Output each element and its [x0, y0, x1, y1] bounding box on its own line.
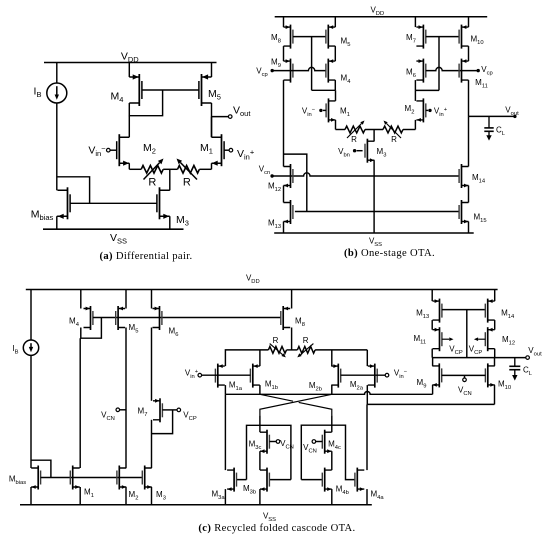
current source IB [47, 83, 67, 103]
wire VDD to M4 source [128, 63, 130, 78]
wire M4c source to M4b drain [331, 451, 333, 470]
svg-text:R: R [391, 135, 397, 144]
wire M4 drain down (fig b) [334, 80, 336, 90]
wire M4b source to VSS [331, 489, 333, 505]
wire M4c gate stub [316, 441, 322, 443]
capacitor CL (fig b) [484, 116, 493, 140]
arrow of variable resistor R right (fig c) [301, 344, 314, 355]
wire VDD rail (fig b) [275, 16, 488, 18]
wire M3c source to M3b drain [259, 451, 261, 470]
wire VCN stub down [464, 375, 466, 377]
svg-text:(a) Differential pair.: (a) Differential pair. [99, 251, 192, 262]
resistor R (left, fig a) [141, 166, 163, 174]
wire gate rail top PMOS row (fig c) [93, 317, 281, 319]
wire resistor tap to M3 drain [169, 169, 171, 190]
transistor M3 (fig c) [142, 466, 151, 490]
wire M2b source up [331, 350, 333, 366]
wire VSS rail (fig a) [43, 228, 184, 230]
wire M4a drain to node B [366, 404, 368, 470]
svg-text:(b) One-stage OTA.: (b) One-stage OTA. [344, 248, 435, 259]
wire M2 drain up (fig b) [414, 90, 416, 101]
transistor M4b [322, 468, 331, 492]
node Vout terminal (fig b) [513, 115, 516, 118]
wire M7 drain to M3 drain column [151, 420, 153, 468]
wire M3a source to VSS [224, 489, 226, 505]
node Vcn terminal (fig b) [270, 174, 273, 177]
wire gate line down to cascode junction (left) [311, 37, 313, 91]
node Vbn terminal [353, 149, 356, 152]
wire M4a source to VSS [366, 489, 368, 505]
arrow VCP bias marker (M12) [478, 338, 485, 340]
svg-text:R: R [351, 135, 357, 144]
arrow of variable resistor R left (fig c) [270, 344, 283, 355]
wire M13 drain to M11 source [431, 320, 433, 330]
wire M5 drain to M1 drain [211, 103, 213, 137]
wire M15 source to VSS [468, 222, 470, 234]
transistor M11 [459, 59, 468, 83]
wire M6 drain down [414, 80, 416, 90]
wire M11 drain to output [468, 80, 470, 116]
wire M2 source down (fig b) [414, 120, 416, 130]
wire Mbias diode connection [57, 177, 90, 204]
wire M9 source down to node A rail [432, 385, 434, 394]
transistor M3 (fig b) [365, 139, 374, 163]
wire X corner down to M4c drain [331, 415, 333, 432]
capacitor CL (fig c) [509, 358, 520, 381]
transistor M5 [199, 74, 212, 106]
wire IB to Mbias drain [56, 103, 58, 190]
wire M2 source down [128, 163, 130, 169]
wire VDD to M5 source (fig b) [334, 17, 336, 27]
transistor M1b [250, 364, 259, 388]
wire M4 gate to M5 gate [142, 89, 199, 91]
wire M1 drain up (fig b) [335, 90, 337, 101]
wire M1 source down (fig b) [335, 120, 337, 130]
wire M1b source up [259, 350, 261, 366]
wire M2a drain down to node B [366, 385, 368, 404]
wire output line (fig c) [432, 357, 525, 359]
wire R1 to R2 (fig b) [365, 129, 383, 131]
wire Mbias source to VSS (fig c) [30, 487, 32, 505]
wire VDD to M13 source [431, 290, 433, 302]
wire M2 source to R1 [129, 168, 141, 170]
resistor R (left, fig c) [268, 347, 286, 354]
wire Vbn to M3 gate [357, 150, 363, 152]
wire VDD to current source IB [56, 63, 58, 84]
wire M1 source to VSS (fig c) [79, 487, 81, 505]
node VCN terminal (left, fig c) [116, 408, 120, 412]
wire Vcp bias rail (left) with hop [272, 67, 326, 70]
wire X corner down to M3c drain [259, 415, 261, 432]
svg-text:R: R [148, 177, 156, 189]
svg-text:R: R [273, 336, 279, 345]
wire M2b drain down [331, 385, 333, 394]
transistor M3c [260, 430, 269, 454]
wire VDD to M10 source [468, 17, 470, 27]
transistor M9 [284, 59, 293, 83]
resistor R (right, fig b) [383, 126, 403, 133]
arrow VCP bias marker (M11) [442, 338, 449, 340]
wire M3 source to VSS (fig b) [373, 160, 375, 233]
wire VCN gate wire M9-M10 [442, 374, 486, 376]
wire node B rail to M10 source [367, 403, 494, 405]
wire M14 source to M15 drain [468, 186, 470, 203]
transistor M10 [459, 25, 468, 49]
node VCN terminal (M4c) [312, 440, 316, 444]
transistor M1 [212, 134, 225, 166]
arrow of variable resistor R left (fig a) [144, 163, 160, 180]
transistor M8 (fig c) [281, 306, 290, 330]
wire mirror gate tap down to output line [466, 310, 468, 358]
node Vout terminal (fig a) [228, 115, 232, 119]
wire M2 drain up to M4 drain [128, 116, 130, 138]
wire M13 gate to M14 gate [442, 309, 485, 311]
transistor M5 (fig b) [326, 25, 335, 49]
wire IB to Mbias drain (fig c) [30, 355, 32, 468]
wire M5 drain to M4 source (fig b) [334, 46, 336, 61]
wire VDD to M7 source [414, 17, 416, 27]
wire M7 drain-gate diode loop [152, 410, 173, 434]
arrow of variable resistor R left (fig b) [347, 124, 362, 139]
wire M4b/M4a gate box [301, 425, 355, 479]
wire M11 drain to output line [431, 349, 433, 358]
wire M7 gate to M10 gate [426, 36, 459, 38]
wire M10 drain up [494, 358, 496, 366]
svg-text:(c) Recycled folded cascode OT: (c) Recycled folded cascode OTA. [198, 523, 355, 534]
arrow of variable resistor R right (fig a) [180, 163, 197, 180]
wire Vin- to M2b/M2a gates [341, 374, 385, 376]
transistor M3a [227, 468, 236, 492]
transistor M11 (fig c) [433, 327, 442, 351]
transistor M2b [331, 364, 340, 388]
wire VDD to M14 source [494, 290, 496, 302]
wire M4 drain to M1 drain column [79, 338, 81, 468]
wire M2 source to VSS (fig c) [125, 487, 127, 505]
wire output tap [212, 116, 229, 118]
wire M12 drain to lower gate rail [284, 154, 307, 211]
transistor M4a [355, 468, 364, 492]
wire cascode junction horizontal (right) [415, 89, 439, 91]
wire output to Vout (fig b) [469, 115, 515, 117]
transistor Mbias (fig c) [31, 466, 40, 490]
transistor M4 (fig b) [326, 59, 335, 83]
transistor M2a [368, 364, 377, 388]
wire M2 gate to Vin+ (fig b) [426, 109, 428, 111]
wire M1a source to tail rail [225, 350, 268, 366]
node Vin+ terminal (fig b) [428, 109, 431, 112]
transistor M5 (fig c) [116, 306, 125, 330]
transistor M2 [117, 134, 130, 166]
wire VDD to M8 source [283, 17, 285, 27]
wire lower gate rail (fig b) [295, 211, 459, 213]
transistor M6 [416, 59, 425, 83]
wire Vin+ to M1a/M1b gates [202, 374, 251, 376]
transistor M3 [157, 187, 170, 219]
wire VDD to M6 source (fig c) [151, 290, 153, 309]
wire M8 gate to M5 gate (fig b) [293, 36, 326, 38]
resistor R (right, fig c) [297, 347, 315, 354]
wire M8 drain to R midpoint [291, 328, 293, 350]
wire cross-coupling diagonal M1b to M4c [260, 394, 332, 415]
node VCN terminal (bottom right, fig c) [463, 378, 467, 382]
transistor M13 [284, 200, 293, 224]
transistor M1 (fig c) [70, 466, 79, 490]
wire cross-coupling diagonal M2b to M3c [260, 394, 332, 415]
wire M1 gate to Vin+ [224, 149, 229, 151]
transistor M2 (fig c) [117, 466, 126, 490]
wire M9 drain up [432, 358, 434, 366]
wire VSS rail (fig c) [20, 504, 372, 506]
wire to R1 (fig b) [336, 129, 346, 131]
transistor M15 [459, 200, 468, 224]
wire Mbias diode connection (fig c) [31, 460, 51, 477]
transistor M2 (fig b) [416, 98, 425, 122]
arrow of variable resistor R right (fig b) [387, 124, 402, 139]
node Vin- terminal (fig a) [107, 148, 111, 152]
wire Vin- to M2 gate [110, 149, 116, 151]
wire M7 gate to VCP [162, 409, 176, 411]
wire M12 drain to output line [494, 349, 496, 358]
transistor M7 [416, 25, 425, 49]
node Vin- terminal (fig b) [319, 109, 322, 112]
wire M6 drain to M7 source [151, 328, 153, 401]
wire M3a/M3b gate box [237, 425, 291, 479]
wire tail rail right (fig c) [315, 349, 367, 351]
wire VDD to M5 source [211, 63, 213, 78]
transistor M4 [129, 74, 142, 106]
wire R tap to M3 drain (fig b) [373, 130, 375, 142]
node Vout terminal (fig c) [526, 356, 530, 360]
wire M3 source to VSS (fig c) [151, 487, 153, 505]
wire Vin- to M1 gate (fig b) [323, 109, 326, 111]
transistor M12 [284, 164, 293, 188]
wire M10 source down to node B rail [494, 385, 496, 405]
wire M1 source down [211, 163, 213, 169]
transistor M8 [284, 25, 293, 49]
wire VDD to M5 source (fig c) [125, 290, 127, 309]
transistor M14 (fig c) [485, 299, 494, 323]
node VCN terminal (M3c) [276, 440, 280, 444]
wire VDD to M8 source (fig c) [291, 290, 293, 309]
wire output down to M14 drain [468, 116, 470, 166]
wire M14 drain to M12 source [494, 320, 496, 330]
wire M1a drain down [224, 385, 226, 394]
wire Vcp bias rail (right) with hop [426, 67, 478, 70]
transistor M6 (fig c) [153, 306, 162, 330]
wire M13 source to VSS [283, 222, 285, 234]
wire M3 drain [169, 189, 171, 191]
node Vin- terminal (fig c) [385, 373, 389, 377]
wire M10 drain to M11 source [468, 46, 470, 61]
wire VDD rail (fig c) [26, 289, 498, 291]
transistor M12 (fig c) [485, 327, 494, 351]
wire M4 drain diode loop (fig c) [81, 318, 102, 339]
wire M3b source to VSS [259, 489, 261, 505]
transistor M1a [215, 364, 224, 388]
wire M4 drain diode loop [129, 90, 162, 116]
wire M1b drain down [259, 385, 261, 394]
transistor M1 (fig b) [326, 98, 335, 122]
transistor M4c [322, 430, 331, 454]
wire between R resistors (fig c) [287, 349, 298, 351]
node Vin+ terminal (fig a) [229, 148, 233, 152]
wire VDD to M4 source (fig c) [80, 290, 82, 309]
wire gate rail bottom row (fig c) [41, 477, 143, 479]
wire M12 source to M13 drain [283, 186, 285, 203]
wire M9 drain down to M12 drain [283, 80, 285, 166]
node Vcp terminal (right, fig b) [477, 69, 480, 72]
transistor M14 [459, 164, 468, 188]
wire gate line down to cascode junction (right) [438, 37, 440, 91]
svg-text:R: R [183, 177, 191, 189]
wire M4b gate lead [301, 479, 322, 481]
wire R2 to M2 source (fig b) [403, 129, 415, 131]
wire M8 drain to M9 source [283, 46, 285, 61]
wire between resistors [163, 168, 177, 170]
wire VDD rail (fig a) [44, 62, 217, 64]
wire M1 drain up [211, 117, 213, 138]
node VCP terminal (left, fig c) [177, 408, 181, 412]
transistor M10 (fig c) [485, 363, 494, 387]
svg-text:R: R [303, 336, 309, 345]
node Vcp terminal (left, fig b) [271, 69, 274, 72]
wire M2a source up [366, 350, 368, 366]
wire gate rail Mbias to M3 [70, 202, 157, 204]
wire M5 drain to M2 drain column [125, 328, 127, 469]
wire node A column to M3a drain [224, 394, 226, 470]
resistor R (left, fig b) [345, 126, 365, 133]
transistor M4 (fig c) [84, 306, 93, 330]
wire R2 to M1 source [199, 168, 211, 170]
wire M3b gate lead [269, 479, 291, 481]
wire M3c gate stub [269, 441, 276, 443]
node Vin+ terminal (fig c) [198, 373, 202, 377]
transistor M13 (fig c) [433, 299, 442, 323]
wire cascode junction horizontal (left) [312, 89, 336, 91]
resistor R (right, fig a) [178, 166, 200, 174]
transistor M7 (fig c) [153, 398, 162, 422]
current source IB (fig c) [23, 340, 38, 355]
wire VSS rail (fig b) [274, 232, 474, 234]
wire Mbias source to VSS [56, 216, 59, 229]
wire Vcn rail (fig b) with hop [272, 173, 459, 176]
transistor M3b [260, 468, 269, 492]
wire M3 source to VSS [169, 216, 171, 229]
transistor Mbias [58, 187, 71, 219]
transistor M9 (fig c) [432, 363, 441, 387]
wire VDD to IB (fig c) [30, 290, 32, 341]
wire folding node rail (fig c) with hop [225, 392, 432, 395]
wire VCN stub to M5 column [120, 409, 126, 411]
